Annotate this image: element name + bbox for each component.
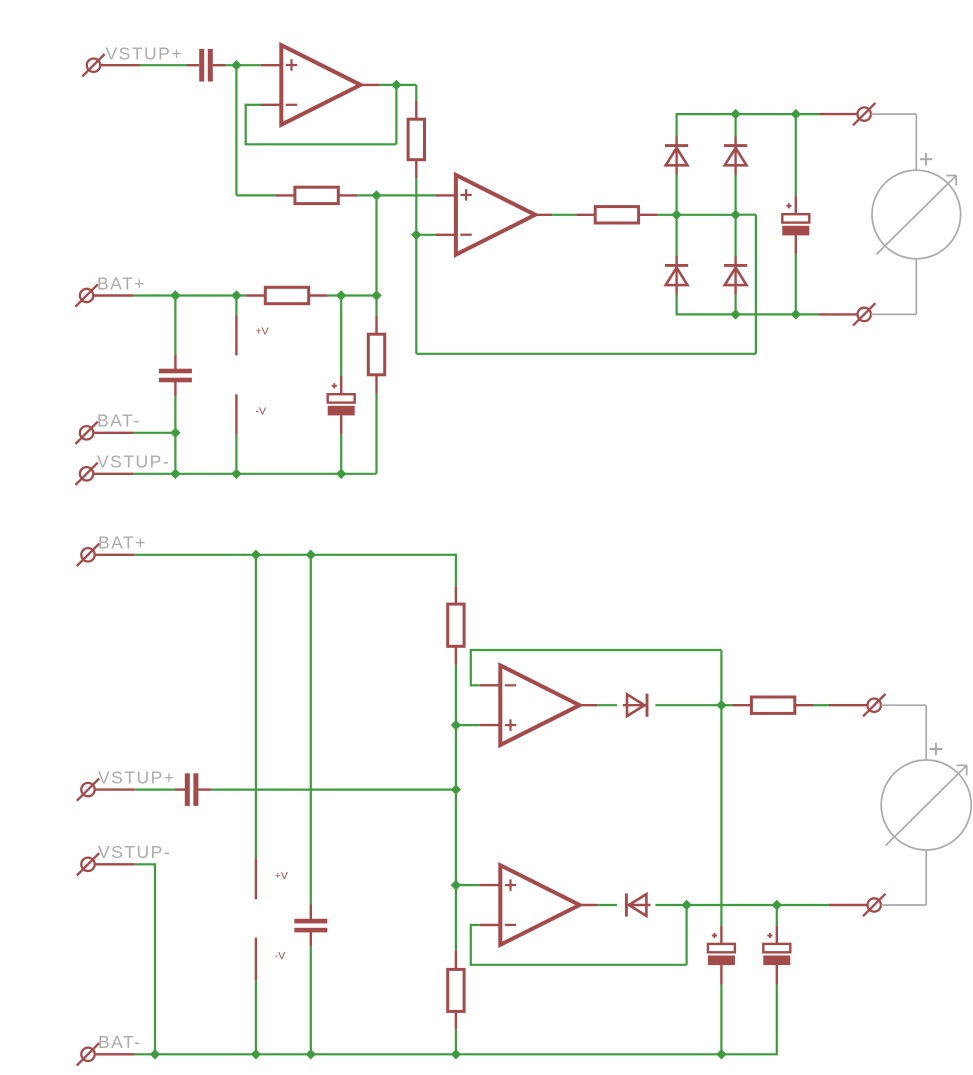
label BAT+ (upper): [97, 273, 146, 293]
capacitor C1 left pin: [187, 64, 199, 66]
wire node F to U3 +IN: [456, 724, 480, 726]
wire VSTUP- pad pin: [93, 473, 133, 475]
junction C10 top: [772, 900, 782, 910]
resistor R4 top pin: [375, 316, 377, 335]
terminal pad OUT+ (upper): [853, 103, 875, 125]
wire BAT- pad pin (lower): [95, 1053, 135, 1055]
wire C7 to BAT-: [310, 947, 312, 1055]
junction VSTUP- node 2: [231, 469, 241, 479]
junction U4 output: [681, 900, 691, 910]
junction VSTUP+ node (lower): [451, 784, 461, 794]
supply +V pin (upper): [235, 315, 237, 355]
op-amp U1: [281, 45, 360, 125]
resistor R2 right pin: [338, 194, 357, 196]
wire C10 to BAT- corner: [776, 985, 778, 1056]
wire feedback U2 top: [736, 214, 756, 216]
resistor R3 right pin: [309, 294, 328, 296]
op-amp U1 +IN pin: [261, 64, 282, 66]
label BAT- (upper): [97, 411, 141, 431]
svg-text:BAT+: BAT+: [98, 533, 147, 553]
wire C9 drop: [720, 705, 722, 926]
resistor R1: [408, 119, 424, 160]
wire U3 out to D5: [597, 704, 617, 706]
junction U1 output: [391, 80, 401, 90]
capacitor C4 (polarized): [782, 203, 809, 235]
diode D6: [626, 893, 650, 916]
supply -V pin (lower): [255, 938, 257, 981]
capacitor C2 bottom pin: [174, 382, 176, 397]
wire D4 bottom: [734, 294, 736, 314]
wire C10 stub: [776, 905, 778, 926]
wire U1 feedback up: [395, 85, 397, 144]
resistor R1 bottom pin: [415, 160, 417, 179]
wire C1 to node A: [226, 64, 261, 66]
wire D4 top: [734, 215, 736, 257]
label VSTUP- (upper): [97, 452, 170, 472]
junction BAT- node: [170, 428, 180, 438]
wire U4 feedback bottom: [470, 964, 687, 966]
wire C4 bottom: [795, 254, 797, 314]
svg-text:VSTUP+: VSTUP+: [106, 43, 184, 63]
resistor R7: [448, 969, 464, 1011]
wire R1 to node B: [415, 178, 417, 235]
wire +V stub: [235, 296, 237, 316]
supply -V pin (upper): [235, 394, 237, 434]
resistor R7 top pin: [455, 950, 457, 969]
op-amp U3 +IN pin: [480, 724, 501, 726]
wire VSTUP+ node to node G: [455, 790, 457, 886]
wire out+ pad pin (upper): [819, 113, 858, 115]
wire C8 to junction: [211, 788, 456, 790]
wire U3 feedback up: [470, 650, 472, 686]
wire U1 feedback stub: [246, 104, 261, 106]
wire C7 drop: [310, 555, 312, 905]
diode D3: [724, 136, 747, 175]
wire node C to U2 +IN: [377, 194, 436, 196]
op-amp U2 OUT pin: [535, 214, 552, 216]
capacitor C9 top pin: [720, 926, 722, 945]
svg-text:VSTUP-: VSTUP-: [97, 452, 170, 472]
node G junction: [451, 880, 461, 890]
junction bottom rail C4: [791, 309, 801, 319]
wire BAT+ pad pin (lower): [95, 554, 135, 556]
wire out- pad pin (upper): [819, 313, 858, 315]
label BAT- (lower): [98, 1032, 142, 1052]
wire meter1 bottom gray: [871, 259, 916, 315]
wire meter2 top gray: [881, 705, 926, 760]
wire VSTUP+ to C1: [140, 64, 187, 66]
wire D1 top: [675, 113, 677, 137]
wire feedback U2 up: [755, 215, 757, 354]
resistor R5 right pin: [639, 214, 658, 216]
wire node B to U2 -IN: [416, 234, 435, 236]
junction U3 output: [716, 700, 726, 710]
junction bottom rail col B: [730, 309, 740, 319]
label BAT+ (lower): [98, 533, 147, 553]
capacitor C8 left pin: [175, 788, 185, 790]
label VSTUP+ (lower): [98, 768, 176, 788]
resistor R2: [295, 187, 338, 203]
wire supply drop (lower): [255, 555, 257, 859]
wire R3 to node D: [328, 294, 377, 296]
wire node C to node D: [375, 195, 377, 295]
wire VSTUP+ pad pin: [100, 64, 140, 66]
junction BAT+ / +V: [231, 290, 241, 300]
resistor R6: [448, 604, 464, 646]
wire D3 top: [734, 114, 736, 137]
terminal pad BAT+ (lower): [77, 544, 99, 566]
capacitor C4 bottom pin: [795, 235, 797, 254]
wire VSTUP- pad pin (lower): [95, 863, 135, 865]
junction top rail C4: [791, 109, 801, 119]
op-amp U3 -IN pin: [480, 684, 501, 686]
wire VSTUP- rail: [133, 473, 377, 475]
wire D2 bottom: [675, 294, 677, 315]
wire D6 to junction: [655, 904, 686, 906]
wire U3 feedback top: [470, 649, 722, 651]
op-amp U3 OUT pin: [580, 704, 597, 706]
svg-text:+V: +V: [256, 325, 269, 337]
op-amp U4: [500, 865, 579, 945]
wire node G to R7: [455, 885, 457, 950]
resistor R3: [265, 287, 308, 303]
capacitor C9 (polarized): [708, 933, 735, 965]
wire R5 to bridge: [658, 214, 677, 216]
wire VSTUP+ to C8: [135, 788, 175, 790]
svg-text:BAT-: BAT-: [98, 1032, 142, 1052]
junction BAT- R7 (lower): [451, 1049, 461, 1059]
wire C4 top: [795, 114, 797, 196]
terminal pad VSTUP+ (lower): [77, 778, 99, 800]
capacitor C10 (polarized): [763, 933, 790, 965]
op-amp U2 -IN pin: [435, 234, 456, 236]
capacitor C2: [159, 369, 192, 383]
op-amp U4 -IN pin: [480, 924, 501, 926]
wire U4 -IN stub: [471, 924, 480, 926]
wire supply to BAT- (lower): [255, 981, 257, 1055]
diode D5: [623, 694, 647, 717]
wire junction to R8: [721, 704, 732, 706]
supply +V pin (lower): [255, 859, 257, 900]
junction VSTUP- node 3: [336, 469, 346, 479]
label VSTUP- (lower): [98, 842, 171, 862]
wire node B down: [415, 235, 417, 354]
resistor R7 bottom pin: [455, 1011, 457, 1029]
wire node G to U4 +IN: [456, 884, 480, 886]
junction BAT+ C7 (lower): [306, 550, 316, 560]
wire BAT+ pad pin: [93, 294, 133, 296]
svg-text:-V: -V: [256, 405, 267, 417]
diode D2: [665, 256, 688, 295]
wire BAT- to node: [133, 432, 175, 434]
label VSTUP+ (upper): [106, 43, 184, 63]
terminal pad OUT- (lower): [863, 894, 885, 916]
wire node F to VSTUP+ node: [455, 725, 457, 790]
terminal pad OUT- (upper): [853, 303, 875, 325]
capacitor C1: [199, 49, 213, 82]
capacitor C2 top pin: [174, 355, 176, 370]
wire out+ pad pin (lower): [829, 704, 868, 706]
wire node D to R4: [375, 296, 377, 316]
junction top rail col B: [730, 109, 740, 119]
meter M1: [872, 153, 961, 259]
terminal pad VSTUP+ (upper): [82, 54, 104, 76]
wire VSTUP+ pad pin (lower): [95, 788, 135, 790]
wire R8 to pad: [814, 704, 829, 706]
node D junction: [371, 290, 381, 300]
junction BAT+ / C2: [170, 290, 180, 300]
junction BAT- C7 (lower): [306, 1049, 316, 1059]
capacitor C3 (polarized): [328, 383, 355, 415]
op-amp U2: [456, 175, 535, 255]
svg-text:BAT-: BAT-: [97, 411, 141, 431]
capacitor C7 top pin: [310, 905, 312, 920]
capacitor C3 top pin: [340, 376, 342, 395]
wire -V stub: [235, 435, 237, 474]
terminal pad BAT- (upper): [75, 422, 97, 444]
wire bridge mid: [677, 214, 736, 216]
svg-text:+V: +V: [275, 870, 288, 882]
wire VSTUP- corner: [135, 863, 155, 1054]
meter M2: [881, 743, 971, 850]
wire C9 to BAT-: [720, 985, 722, 1055]
capacitor C4 top pin: [795, 196, 797, 216]
svg-text:BAT+: BAT+: [97, 273, 146, 293]
junction BAT- VSTUP- (lower): [150, 1049, 160, 1059]
wire D5 to junction: [655, 704, 721, 706]
wire BAT- node down: [174, 433, 176, 474]
capacitor C8 right pin: [198, 788, 211, 790]
terminal pad VSTUP- (upper): [75, 463, 97, 485]
node A junction: [231, 60, 241, 70]
label -V (upper): [256, 405, 267, 417]
resistor R8 right pin: [795, 704, 814, 706]
node B junction: [411, 230, 421, 240]
wire bridge bottom rail: [677, 313, 819, 315]
wire BAT+ to R3: [133, 294, 246, 296]
resistor R1 top pin: [415, 101, 417, 119]
svg-text:VSTUP-: VSTUP-: [98, 842, 171, 862]
wire U4 out to D6: [597, 904, 617, 906]
wire BAT+ down to R6: [455, 554, 457, 587]
capacitor C10 top pin: [776, 926, 778, 945]
label +V (upper): [256, 325, 269, 337]
junction BAT- C9 (lower): [716, 1049, 726, 1059]
wire C3 to VSTUP-: [340, 434, 342, 474]
wire D1 bottom: [675, 174, 677, 215]
capacitor C1 right pin: [213, 64, 226, 66]
wire node E to C3: [340, 296, 342, 377]
capacitor C7: [294, 919, 327, 933]
resistor R5 left pin: [576, 214, 595, 216]
capacitor C10 bottom pin: [776, 965, 778, 985]
resistor R5: [595, 207, 638, 223]
wire meter2 bottom gray: [881, 850, 926, 905]
wire D2 top: [675, 215, 677, 257]
junction bridge right mid: [730, 210, 740, 220]
wire U3 feedback down: [720, 650, 722, 705]
wire feedback U2 bottom: [416, 353, 756, 355]
node C junction: [371, 190, 381, 200]
junction VSTUP- node 1: [170, 469, 180, 479]
wire U1 feedback bottom: [245, 143, 397, 145]
wire U4 out rail: [687, 904, 829, 906]
wire U4 feedback down: [470, 924, 472, 965]
svg-text:VSTUP+: VSTUP+: [98, 768, 176, 788]
terminal pad BAT+ (upper): [75, 284, 97, 306]
wire BAT- pad pin: [93, 432, 133, 434]
resistor R6 top pin: [455, 586, 457, 604]
wire U1 out to junction: [379, 84, 396, 86]
junction bridge left mid: [671, 210, 681, 220]
junction node E C3 top: [336, 290, 346, 300]
wire U4 feedback up: [685, 905, 687, 965]
wire node A down: [235, 65, 237, 195]
wire U3 -IN stub: [471, 684, 480, 686]
capacitor C3 bottom pin: [340, 415, 342, 434]
resistor R4 bottom pin: [375, 375, 377, 394]
wire to R2: [236, 194, 276, 196]
wire U2 out to R5: [552, 214, 576, 216]
wire BAT+ rail (lower): [135, 554, 456, 556]
wire bridge top rail: [676, 113, 819, 115]
junction BAT- supply (lower): [251, 1049, 261, 1059]
resistor R4: [368, 334, 384, 375]
terminal pad OUT+ (lower): [863, 694, 885, 716]
op-amp U1 OUT pin: [361, 84, 380, 86]
wire R6 to node F: [455, 665, 457, 725]
wire meter1 top gray: [871, 114, 916, 170]
op-amp U1 -IN pin: [261, 104, 282, 106]
diode D1: [665, 136, 688, 175]
label +V (lower): [275, 870, 288, 882]
label -V (lower): [275, 950, 286, 962]
resistor R8: [751, 697, 794, 713]
op-amp U4 +IN pin: [480, 884, 501, 886]
wire U1 out to R1: [396, 85, 416, 101]
junction BAT+ supply (lower): [251, 550, 261, 560]
capacitor C9 bottom pin: [720, 965, 722, 985]
wire BAT+ to C2: [174, 296, 176, 355]
terminal pad VSTUP- (lower): [77, 853, 99, 875]
wire R7 to BAT- rail: [455, 1030, 457, 1055]
op-amp U3: [500, 665, 579, 745]
wire D3 bottom: [734, 174, 736, 215]
resistor R8 left pin: [732, 704, 751, 706]
op-amp U4 OUT pin: [580, 904, 597, 906]
resistor R2 left pin: [276, 194, 295, 196]
wire C2 to BAT-: [174, 396, 176, 432]
wire R4 to VSTUP-: [375, 393, 377, 473]
resistor R3 left pin: [246, 294, 265, 296]
capacitor C8: [185, 773, 199, 806]
wire BAT- rail (lower): [135, 1053, 776, 1055]
capacitor C7 bottom pin: [310, 932, 312, 947]
svg-text:-V: -V: [275, 950, 286, 962]
wire R2 to node C: [357, 194, 376, 196]
node F junction: [451, 720, 461, 730]
op-amp U2 +IN pin: [435, 194, 456, 196]
terminal pad BAT- (lower): [77, 1043, 99, 1065]
diode D4: [724, 256, 747, 295]
wire out- pad pin (lower): [829, 904, 868, 906]
wire U1 feedback down: [245, 104, 247, 145]
resistor R6 bottom pin: [455, 646, 457, 665]
